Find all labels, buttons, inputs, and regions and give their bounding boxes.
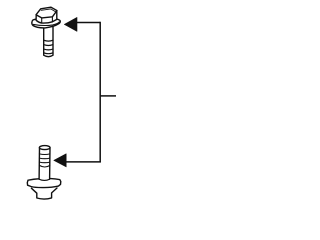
- wire bracket vertical: [99, 22, 101, 162]
- bolt B2 stud body: [39, 148, 50, 180]
- bolt B1 head side faces: [36, 11, 57, 23]
- wire leader from arrow A1: [77, 22, 101, 24]
- bolt B2 stud tip ellipse: [39, 146, 50, 150]
- wire leader to arrow A2: [66, 161, 101, 163]
- bolt B1 hex head top face: [36, 7, 57, 18]
- bolt B2 flange: [27, 178, 61, 187]
- bolt B2 (bottom hex flange bolt, threaded end up): [27, 146, 61, 199]
- bolt B2 thread runout arc: [39, 165, 50, 167]
- bolt B1 head facet line left: [41, 18, 43, 23]
- bolt B1 flange: [32, 18, 61, 28]
- bolt B1 (top hex flange bolt): [32, 7, 61, 57]
- wire tick (label stub): [100, 95, 116, 97]
- bolt B1 flange band: [33, 22, 59, 26]
- bolt B2 threads: [39, 153, 50, 156]
- bolt B1 head facet line right: [51, 17, 53, 22]
- arrow A2 (points to bolt B2): [54, 154, 66, 167]
- bolt B2 hex body: [31, 188, 57, 199]
- bolt B2 stud base fillet arc: [39, 179, 50, 180]
- bolt B1 shank: [44, 25, 53, 57]
- arrow A1 (points to bolt B1): [64, 17, 77, 31]
- bolt B1 head chamfer line: [41, 9, 55, 12]
- bolt B1 threads: [44, 39, 53, 42]
